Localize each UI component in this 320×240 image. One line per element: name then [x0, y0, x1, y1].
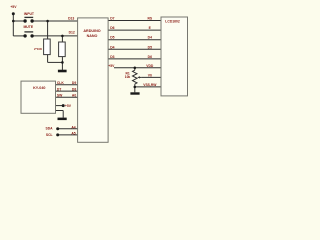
svg-text:NANO: NANO: [87, 34, 98, 38]
svg-text:KY-040: KY-040: [33, 86, 45, 90]
svg-text:D7: D7: [110, 17, 114, 21]
svg-text:D13: D13: [68, 16, 74, 20]
svg-text:D5: D5: [110, 36, 114, 40]
svg-text:A5: A5: [71, 132, 75, 136]
svg-text:DT: DT: [57, 88, 61, 92]
svg-text:D4: D4: [110, 45, 114, 49]
svg-text:+5V: +5V: [10, 5, 17, 9]
svg-text:SW: SW: [57, 94, 63, 98]
svg-text:CLK: CLK: [57, 81, 64, 85]
svg-text:VSS,RW: VSS,RW: [143, 83, 157, 87]
svg-text:D8: D8: [72, 88, 76, 92]
svg-text:A4: A4: [71, 126, 75, 130]
svg-text:SCL: SCL: [46, 133, 53, 137]
svg-text:LCD1602: LCD1602: [165, 19, 180, 23]
svg-text:D6: D6: [148, 55, 152, 59]
svg-text:D12: D12: [69, 30, 75, 34]
svg-text:+5V: +5V: [65, 104, 72, 108]
svg-text:D4: D4: [148, 36, 152, 40]
svg-text:+5V: +5V: [108, 64, 115, 68]
svg-text:RS: RS: [147, 17, 152, 21]
svg-text:D6: D6: [110, 26, 114, 30]
svg-text:ARDUINO: ARDUINO: [83, 29, 100, 33]
svg-text:SDA: SDA: [46, 127, 54, 131]
svg-text:10k: 10k: [125, 75, 131, 79]
svg-text:V0: V0: [148, 73, 152, 77]
svg-text:VDD: VDD: [146, 64, 154, 68]
svg-text:A0: A0: [72, 94, 76, 98]
svg-text:D3: D3: [110, 55, 114, 59]
svg-text:MUTE: MUTE: [23, 25, 33, 29]
svg-text:D5: D5: [148, 45, 152, 49]
svg-text:INPUT: INPUT: [24, 12, 35, 16]
svg-text:2*10K: 2*10K: [34, 47, 43, 51]
svg-text:D9: D9: [72, 81, 76, 85]
